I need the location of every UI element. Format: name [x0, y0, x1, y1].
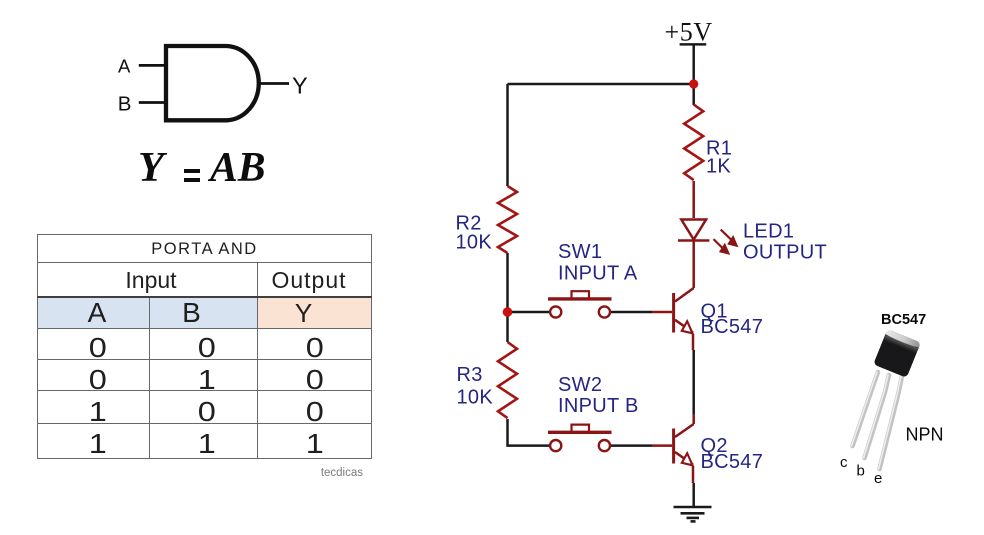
svg-text:b: b — [857, 463, 865, 480]
svg-text:INPUT A: INPUT A — [558, 263, 638, 285]
svg-text:10K: 10K — [456, 232, 493, 254]
svg-text:LED1: LED1 — [743, 221, 794, 243]
svg-text:e: e — [874, 470, 882, 487]
svg-text:B: B — [118, 93, 132, 116]
svg-text:R3: R3 — [457, 364, 483, 386]
svg-text:Y: Y — [292, 73, 308, 99]
svg-text:10K: 10K — [457, 387, 494, 409]
svg-text:A: A — [118, 55, 131, 76]
svg-text:1K: 1K — [706, 156, 731, 178]
svg-text:INPUT B: INPUT B — [558, 395, 639, 417]
svg-text:c: c — [840, 454, 848, 471]
svg-text:SW1: SW1 — [558, 241, 602, 263]
svg-text:BC547: BC547 — [701, 316, 764, 338]
svg-text:OUTPUT: OUTPUT — [743, 242, 827, 264]
svg-text:NPN: NPN — [906, 425, 944, 445]
svg-text:SW2: SW2 — [558, 374, 602, 396]
svg-text:BC547: BC547 — [881, 312, 926, 328]
svg-text:BC547: BC547 — [701, 451, 764, 473]
svg-text:+5V: +5V — [665, 18, 713, 47]
